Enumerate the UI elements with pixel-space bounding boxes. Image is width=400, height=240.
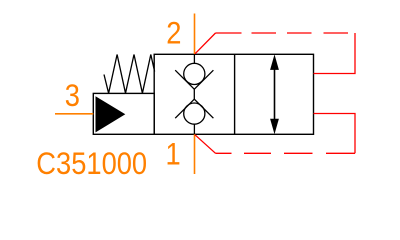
flow arrow head top (270, 54, 279, 70)
port 2 pilot line (194, 14, 196, 55)
check valve CV2 seat (175, 99, 213, 118)
check valve CV2 stem (193, 124, 195, 134)
port label 3 (65, 78, 80, 113)
port label 1 (166, 137, 181, 172)
port 3 pilot line (55, 113, 93, 115)
connector stub between check valves (193, 89, 195, 99)
svg-text:3: 3 (65, 78, 80, 113)
part number label C351000 (36, 146, 147, 181)
check valve CV2 ball (184, 103, 205, 124)
main valve body outline (154, 54, 313, 134)
flow arrow head bottom (270, 119, 279, 135)
port label 2 (166, 16, 181, 51)
pilot box (93, 93, 154, 134)
port 2 connection bracket (314, 33, 356, 74)
svg-text:2: 2 (166, 16, 181, 51)
bidirectional flow arrow shaft (274, 60, 276, 128)
check valve CV1 seat (175, 70, 213, 89)
svg-text:1: 1 (166, 137, 181, 172)
port 1 pilot line (194, 134, 196, 174)
port 1 dashed connection line (216, 152, 356, 154)
port 2 red leader diagonal (195, 33, 216, 54)
spring (104, 55, 155, 94)
port 1 red leader diagonal (195, 135, 216, 154)
port 1 connection bracket (314, 114, 356, 154)
svg-text:C351000: C351000 (36, 146, 147, 181)
port 2 dashed connection line (216, 32, 349, 34)
cell divider (234, 54, 236, 134)
pilot triangle (96, 96, 126, 132)
check valve CV1 ball (184, 63, 205, 84)
check valve CV1 stem (193, 54, 195, 63)
